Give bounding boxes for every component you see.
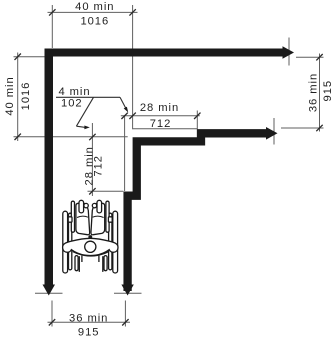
tick top dim right [129,9,135,15]
svg-text:36 min: 36 min [308,73,320,112]
wheelchair left leg [76,203,90,234]
wheelchair lap arc [73,252,109,257]
wire right 36 min top extension [296,56,324,58]
wheelchair nose dot [89,236,92,239]
tick top dim left [49,9,55,15]
wheelchair left handrim [69,213,72,270]
tick left dim top [15,54,21,60]
wire leader 2 diagonal [76,97,93,126]
counter and alcove wall profile [128,133,266,291]
wheelchair left caster fork line [78,256,80,272]
wheelchair left clamp [68,217,72,222]
wheelchair left knee crease [77,216,88,217]
left wall break arrow [43,285,56,296]
wheelchair left foot [79,200,84,213]
wire leader 1 diagonal [120,97,126,109]
wire 712 underline counter level extension [133,128,197,130]
svg-text:40 min: 40 min [4,76,16,115]
wire left dimension line 40 min vertical [17,53,19,142]
tick vert 28min bottom [89,188,95,194]
wheelchair armrest band [63,238,118,255]
svg-text:4 min: 4 min [58,86,90,98]
wire leader 2 horizontal [76,126,85,127]
wire bottom dim left extension [51,301,53,327]
svg-text:36 min: 36 min [69,312,108,324]
wire top dimension line 40 min [48,11,138,13]
left wall [45,49,54,286]
counter break arrow [266,127,278,140]
wire bottom dimension line 36 min [48,321,131,323]
wire left wall break cut line [35,292,63,294]
tick right 36min bottom [316,125,322,131]
wheelchair right caster [104,256,107,271]
svg-text:712: 712 [92,155,104,177]
svg-text:1016: 1016 [20,82,32,111]
wire counter break cut line [273,118,275,145]
wheelchair right knee crease [93,216,104,217]
wheelchair right foot [97,200,102,213]
wheelchair right caster fork line [102,256,104,272]
leader 2 arrowhead [84,126,89,130]
tick horiz 28min right [194,113,200,119]
leader 1 arrowhead [124,107,129,113]
svg-text:28 min: 28 min [140,102,179,114]
tick bottom 36min right [122,319,128,325]
wire extension line A 4min left [124,116,126,191]
wheelchair head [85,241,96,252]
svg-text:1016: 1016 [80,16,109,28]
wheelchair right rail [106,201,109,232]
wheelchair right handrim [109,213,112,270]
alcove wall break arrow [121,285,133,296]
tick right 36min top [316,54,322,60]
top wall break arrow [283,46,295,59]
wire right 36 min bottom extension [281,127,324,129]
wire left-bottom shared extension line (counter level) [14,136,128,138]
wire top dim left extension line [51,5,53,48]
tick bottom 36min left [49,319,55,325]
wire horizontal 28 min dimension line [121,115,200,117]
wheelchair right heel [92,203,96,207]
wheelchair figure [63,200,118,273]
wheelchair left rail [71,201,74,232]
wire top wall break cut line [288,38,290,66]
tick vert 28min top [89,134,95,140]
wheelchair right tire [113,211,118,273]
svg-text:712: 712 [150,118,172,130]
wheelchair left heel [84,203,88,207]
wheelchair right seat stub [98,256,100,262]
wire top dim right extension line [132,5,134,129]
wire extension line C 28min right [196,111,198,130]
wheelchair left caster [75,256,78,271]
tick horiz 28min at A [121,113,127,119]
top wall [45,49,283,57]
wire vertical 28 min dimension line [91,123,93,196]
svg-text:915: 915 [322,80,334,102]
wheelchair right clamp [108,217,112,222]
svg-text:102: 102 [61,97,83,109]
wire bottom dim right extension [124,301,126,327]
wire left dim top extension line [14,56,45,58]
wire leader shoulder under 4 min [56,96,120,98]
svg-text:915: 915 [78,327,100,338]
wheelchair left seat stub [81,256,83,262]
wire right 36 min dimension line [319,54,321,132]
tick left dim bottom [15,134,21,140]
tick horiz 28min at B [129,113,135,119]
wheelchair left tire [63,211,68,273]
wire alcove wall break cut line [114,292,142,294]
wire vertical 28 min bottom extension [88,190,124,192]
svg-text:40 min: 40 min [75,1,114,13]
wheelchair right leg [91,203,105,234]
